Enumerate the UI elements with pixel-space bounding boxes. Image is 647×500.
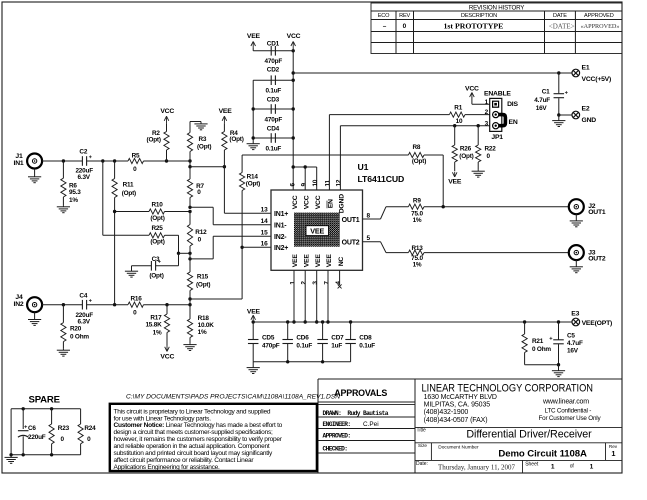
wire pin1 VEE [293, 270, 295, 322]
op-amp U1 outline [271, 190, 363, 270]
svg-text:(Opt): (Opt) [459, 153, 473, 160]
wire R21/C5 bottom [525, 364, 559, 366]
svg-text:R25: R25 [151, 225, 163, 232]
node R22 tap [477, 124, 480, 127]
node spare top C6 [22, 407, 25, 410]
wire VEE rail [253, 321, 572, 323]
node branch R11 [113, 159, 116, 162]
ground below J4 [34, 312, 36, 319]
revision history table [371, 3, 622, 54]
svg-text:LTC Confidential -: LTC Confidential - [545, 408, 592, 415]
wire node A down jog [189, 161, 191, 167]
node CD4 right [292, 136, 295, 139]
node CD3 right [292, 107, 295, 110]
wire pin3 VEE [316, 270, 318, 322]
wire R15 node to IN2 row [189, 299, 191, 305]
svg-text:R18: R18 [198, 315, 210, 322]
svg-text:Title: Title [417, 428, 426, 434]
svg-text:1: 1 [551, 464, 555, 471]
node CD7 bottom [321, 360, 324, 363]
svg-text:ENGINEER:: ENGINEER: [323, 421, 351, 428]
wire R13 to J3 [424, 252, 569, 254]
svg-text:CD1: CD1 [267, 40, 280, 47]
svg-text:OUT1: OUT1 [588, 209, 606, 216]
svg-text:Size: Size [418, 443, 427, 448]
svg-text:R15: R15 [197, 274, 209, 281]
svg-text:0.1uF: 0.1uF [265, 146, 281, 153]
capacitor C2 [81, 156, 83, 166]
svg-text:CD4: CD4 [267, 125, 280, 132]
svg-text:C.Pei: C.Pei [363, 421, 379, 428]
node A R3/R5 [188, 159, 191, 162]
svg-text:REVISION HISTORY: REVISION HISTORY [469, 4, 524, 11]
resistor R11 [114, 161, 116, 179]
svg-text:1%: 1% [413, 261, 422, 268]
svg-text:5: 5 [367, 235, 371, 242]
wire J4 to C4 [42, 304, 83, 306]
resistor R18 [189, 305, 191, 319]
svg-text:0.1uF: 0.1uF [265, 88, 281, 95]
capacitor CD4 [270, 133, 272, 143]
node R26 tap [453, 124, 456, 127]
svg-text:R22: R22 [485, 146, 497, 153]
wire C1 to E2 [559, 114, 572, 116]
svg-text:VEE: VEE [219, 108, 233, 115]
ground below R20 [62, 349, 64, 350]
svg-text:For Customer Use Only: For Customer Use Only [539, 415, 602, 422]
wire VCC to JP1 pin1 [471, 97, 473, 104]
svg-text:VEE: VEE [303, 254, 310, 268]
node R4 bottom [223, 165, 226, 168]
svg-text:(408)432-1900: (408)432-1900 [424, 409, 469, 416]
title block [318, 378, 622, 380]
svg-text:DRAWN: Rudy Bautista: DRAWN: Rudy Bautista [323, 410, 389, 417]
svg-text:APPROVED: APPROVED [584, 13, 614, 19]
svg-text:220uF: 220uF [28, 434, 46, 441]
svg-text:4.7uF: 4.7uF [567, 340, 583, 347]
ground below J2 [575, 214, 577, 221]
svg-text:470pF: 470pF [265, 58, 283, 65]
capacitor C4 [81, 300, 83, 310]
spare left wire [10, 409, 12, 455]
svg-text:VCC: VCC [303, 195, 310, 209]
svg-text:R9: R9 [413, 198, 421, 205]
svg-text:0 Ohm: 0 Ohm [70, 333, 89, 340]
svg-text:(Opt): (Opt) [229, 136, 243, 143]
wire R15 bottom to IN2+ riser [190, 298, 242, 300]
svg-text:(Opt): (Opt) [149, 272, 163, 279]
svg-text:DGND: DGND [339, 194, 346, 214]
wire CD4 row [253, 137, 293, 139]
ground spare [10, 455, 12, 458]
wire J1 to C2 [42, 160, 83, 162]
node R12 bottom [188, 252, 191, 255]
svg-text:(Opt): (Opt) [412, 158, 426, 165]
svg-text:substitution and printed circu: substitution and printed circuit board l… [114, 450, 274, 457]
resistor R15 [189, 253, 191, 272]
svg-text:C1: C1 [542, 89, 550, 96]
svg-text:1630 McCARTHY BLVD: 1630 McCARTHY BLVD [424, 394, 497, 401]
node R6 tap [62, 159, 65, 162]
svg-text:Document Number: Document Number [438, 445, 479, 451]
wire node A to R4 bottom [190, 166, 224, 168]
svg-text:R1: R1 [454, 105, 462, 112]
capacitor C6 [22, 409, 24, 429]
wire CD1 row [252, 47, 254, 50]
resistor R6 [62, 161, 64, 178]
capacitor CD1 [270, 46, 272, 56]
svg-text:(Opt): (Opt) [150, 215, 164, 222]
U1 thermal pad [294, 213, 340, 247]
svg-text:(Opt): (Opt) [196, 282, 210, 289]
svg-text:0.1uF: 0.1uF [359, 343, 375, 350]
svg-text:ENABLE: ENABLE [484, 90, 511, 97]
capacitor C3 [132, 265, 152, 267]
wire pin14 IN1- [190, 206, 213, 208]
svg-text:(Opt): (Opt) [147, 136, 161, 143]
svg-text:C5: C5 [567, 332, 575, 339]
svg-text:VEE: VEE [292, 254, 299, 268]
node R17 tap [165, 303, 168, 306]
node CD5 top [252, 320, 255, 323]
resistor R16 [128, 302, 143, 307]
terminal E3 [572, 318, 580, 326]
svg-text:C3: C3 [152, 256, 160, 263]
svg-text:R8: R8 [413, 144, 421, 151]
node OUT1 feedback [442, 205, 445, 208]
proprietary notice box [110, 404, 317, 471]
wire C2 to R5 [87, 160, 128, 162]
svg-text:VEE: VEE [310, 227, 324, 236]
power VEE below R26 [452, 172, 454, 177]
svg-text:OUT2: OUT2 [342, 240, 360, 247]
svg-text:MILPITAS, CA. 95035: MILPITAS, CA. 95035 [424, 401, 491, 408]
svg-text:Applications Engineering for a: Applications Engineering for assistance. [114, 464, 221, 471]
svg-text:CD7: CD7 [331, 335, 344, 342]
ground left of C3 [131, 266, 133, 271]
resistor R5 [128, 158, 143, 163]
svg-text:10: 10 [456, 118, 463, 125]
node C1 top [557, 71, 560, 74]
svg-text:CD8: CD8 [359, 335, 372, 342]
node pin3 rail [315, 320, 318, 323]
svg-text:OUT2: OUT2 [588, 256, 606, 263]
svg-text:CD5: CD5 [262, 335, 275, 342]
connector J4 [27, 297, 42, 312]
svg-text:OUT1: OUT1 [342, 217, 360, 224]
ground below J3 [575, 260, 577, 267]
svg-text:www.linear.com: www.linear.com [542, 398, 589, 405]
svg-text:R10: R10 [151, 201, 163, 208]
terminal E2 [572, 111, 580, 119]
wire pin16 IN2+ [242, 246, 271, 248]
ground below R22 [477, 169, 479, 171]
wire CD left vertical [252, 80, 254, 142]
wire pin15 IN2- [190, 258, 213, 260]
svg-text:4.7uF: 4.7uF [534, 97, 550, 104]
resistor R3 [189, 152, 191, 162]
svg-text:however, it remains the custom: however, it remains the customers respon… [114, 436, 283, 443]
wire pin11 EN riser [328, 115, 330, 190]
node pin15 tap [188, 257, 191, 260]
svg-text:CD3: CD3 [267, 97, 280, 104]
ground below CD4 [252, 143, 254, 144]
svg-text:CHECKED:: CHECKED: [323, 445, 348, 452]
wire CD bottom rail [253, 361, 350, 363]
svg-text:R23: R23 [58, 425, 70, 432]
node CD7 top [321, 320, 324, 323]
svg-text:R3: R3 [199, 136, 207, 143]
svg-text:E1: E1 [582, 64, 590, 71]
svg-text:VCC(+5V): VCC(+5V) [582, 76, 612, 83]
node pin16 junction [240, 246, 243, 249]
svg-text:R16: R16 [130, 295, 142, 302]
resistor R20 [62, 305, 64, 323]
svg-text:VCC: VCC [287, 33, 301, 40]
svg-text:Thursday, January 11, 2007: Thursday, January 11, 2007 [438, 463, 515, 472]
terminal E1 [572, 69, 580, 77]
resistor R14 [240, 173, 245, 191]
wire C3 node to R12 bottom [179, 252, 191, 254]
node R20 tap [62, 303, 65, 306]
svg-text:95.3: 95.3 [69, 189, 81, 196]
svg-text:IN1+: IN1+ [274, 211, 288, 218]
node pin2 rail [304, 320, 307, 323]
wire R8 to OUT1 node [424, 154, 443, 156]
svg-text:8: 8 [367, 212, 371, 219]
svg-text:JP1: JP1 [491, 134, 503, 141]
svg-text:R24: R24 [84, 425, 96, 432]
svg-text:LT6411CUD: LT6411CUD [358, 174, 405, 184]
svg-text:CD6: CD6 [296, 335, 309, 342]
wire pin10 stub [316, 167, 318, 190]
svg-text:affect circuit performance or: affect circuit performance or reliabilit… [114, 457, 255, 464]
svg-text:13: 13 [261, 206, 268, 213]
svg-text:LINEAR TECHNOLOGY CORPORATION: LINEAR TECHNOLOGY CORPORATION [422, 383, 594, 395]
svg-text:VCC: VCC [160, 108, 174, 115]
svg-text:ECO: ECO [378, 13, 390, 19]
svg-text:design a circuit that meets cu: design a circuit that meets customer-sup… [114, 429, 273, 436]
connector J2 [569, 199, 584, 214]
svg-text:14: 14 [261, 218, 268, 225]
svg-text:470pF: 470pF [262, 343, 280, 350]
node R18 top [188, 303, 191, 306]
capacitor C5 [558, 322, 560, 340]
svg-text:C:\MY DOCUMENTS\PADS PROJECTS\: C:\MY DOCUMENTS\PADS PROJECTS\CAM\1108A\… [126, 394, 340, 401]
resistor R23 [51, 409, 53, 424]
resistor R9 [408, 204, 424, 209]
svg-text:12: 12 [336, 179, 343, 186]
node R11 bottom [113, 303, 116, 306]
node spare top R23 [50, 407, 53, 410]
svg-text:C4: C4 [79, 293, 87, 300]
node pin1 rail [292, 320, 295, 323]
svg-text:DIS: DIS [507, 101, 518, 108]
node E2 junction [557, 113, 560, 116]
node A2 [188, 165, 191, 168]
resistor R8 [408, 152, 424, 157]
node CD8 top [349, 320, 352, 323]
wire CD3 row [253, 108, 293, 110]
svg-text:APPROVALS: APPROVALS [334, 388, 387, 398]
svg-text:R5: R5 [132, 152, 140, 159]
wire R9 to J2 [424, 206, 569, 208]
svg-text:VCC: VCC [160, 353, 174, 360]
svg-text:EN: EN [328, 199, 335, 208]
wire R14 to R8 [242, 154, 408, 156]
wire VCC rail vertical [292, 47, 294, 190]
ground below R6 [62, 206, 64, 207]
svg-text:Customer Notice: Linear Techno: Customer Notice: Linear Technology has m… [114, 422, 283, 429]
svg-text:IN1: IN1 [14, 160, 24, 167]
svg-text:1: 1 [611, 449, 615, 458]
svg-text:VEE: VEE [315, 254, 322, 268]
svg-text:VEE: VEE [326, 254, 333, 268]
wire OUT2 stub [363, 241, 381, 243]
svg-text:«APPROVED»: «APPROVED» [581, 23, 620, 30]
svg-text:15: 15 [261, 230, 268, 237]
node R15 bottom [188, 297, 191, 300]
svg-text:C6: C6 [28, 425, 36, 432]
node spare bottom R23 [50, 453, 53, 456]
capacitor C1 [558, 73, 560, 93]
node C5 top [557, 320, 560, 323]
node CD6 bottom [286, 360, 289, 363]
svg-text:0.1uF: 0.1uF [296, 343, 312, 350]
wire R5 to node A [144, 160, 191, 162]
node CD3 left [252, 107, 255, 110]
svg-text:Sheet: Sheet [525, 462, 539, 468]
node CD4 left [252, 136, 255, 139]
svg-text:C2: C2 [79, 148, 87, 155]
svg-text:R12: R12 [195, 229, 207, 236]
node E1 tap [292, 71, 295, 74]
svg-text:VEE: VEE [448, 179, 462, 186]
resistor R26 [454, 126, 456, 145]
capacitor CD3 [270, 104, 272, 114]
svg-text:1%: 1% [69, 197, 78, 204]
svg-text:and reliable operation in the: and reliable operation in the actual app… [114, 443, 270, 450]
svg-text:IN2-: IN2- [274, 234, 287, 241]
resistor R13 [408, 250, 424, 255]
ground below J1 [34, 169, 36, 177]
svg-text:VEE(OPT): VEE(OPT) [582, 320, 613, 327]
svg-text:This circuit is proprietary to: This circuit is proprietary to Linear Te… [114, 408, 271, 415]
svg-text:1%: 1% [413, 217, 422, 224]
node C5 bottom [557, 363, 560, 366]
svg-text:1%: 1% [153, 329, 162, 336]
svg-text:11: 11 [325, 179, 332, 186]
svg-text:Differential Driver/Receiver: Differential Driver/Receiver [466, 429, 592, 441]
svg-text:DESCRIPTION: DESCRIPTION [461, 13, 497, 19]
svg-text:(Opt): (Opt) [122, 190, 136, 197]
svg-text:VEE: VEE [247, 33, 261, 40]
resistor R25 [149, 233, 164, 238]
spare bottom rail wire [11, 454, 81, 456]
node spare bottom C6 [22, 453, 25, 456]
svg-text:1st PROTOTYPE: 1st PROTOTYPE [443, 22, 503, 31]
svg-text:R26: R26 [460, 146, 472, 153]
svg-text:VCC: VCC [465, 86, 479, 93]
node R10 right [188, 210, 191, 213]
svg-text:<DATE>: <DATE> [549, 22, 575, 30]
svg-text:VCC: VCC [315, 195, 322, 209]
wire pin9 stub [304, 167, 306, 190]
resistor R1 [449, 112, 465, 117]
node CD2 right [292, 79, 295, 82]
svg-text:DATE: DATE [553, 13, 567, 19]
node pin9 connector [304, 165, 307, 168]
svg-text:IN2+: IN2+ [274, 245, 288, 252]
svg-text:R11: R11 [123, 182, 134, 189]
svg-text:VCC: VCC [292, 195, 299, 209]
svg-text:R17: R17 [150, 314, 162, 321]
node C3/R25 [177, 252, 180, 255]
svg-text:6.3V: 6.3V [78, 174, 91, 181]
capacitor CD8 [350, 322, 352, 339]
svg-text:1uF: 1uF [331, 343, 342, 350]
resistor R10 [115, 211, 149, 213]
svg-text:NC: NC [338, 257, 345, 267]
svg-text:Demo Circuit 1108A: Demo Circuit 1108A [498, 449, 587, 460]
wire pin4 NC stub [339, 270, 341, 285]
node pin6 connector [292, 165, 295, 168]
capacitor CD2 [270, 75, 272, 85]
svg-text:(Opt): (Opt) [197, 143, 211, 150]
svg-text:Date:: Date: [416, 461, 428, 467]
capacitor CD7 [322, 322, 324, 339]
connector J3 [569, 245, 584, 260]
resistor R4 [223, 123, 225, 131]
jumper JP1 outline [490, 98, 502, 131]
power VCC below R17 [165, 347, 167, 352]
JP1 pin2 pad [493, 112, 499, 118]
resistor R24 [80, 409, 82, 424]
svg-text:(Opt): (Opt) [150, 239, 164, 246]
resistor R17 [166, 305, 168, 314]
node spare bottom left [9, 453, 12, 456]
svg-text:10: 10 [312, 179, 319, 186]
JP1 shunt jumper [498, 115, 505, 126]
wire CD2 row [253, 79, 293, 81]
node pin7 rail [326, 320, 329, 323]
svg-text:CD2: CD2 [267, 67, 280, 74]
capacitor CD5 [252, 322, 254, 339]
resistor R2 [166, 123, 168, 131]
node R21 top [523, 320, 526, 323]
resistor R21 [524, 322, 526, 334]
resistor R12 [189, 212, 191, 225]
svg-text:R20: R20 [70, 326, 82, 333]
wire branch to R25 [102, 161, 104, 235]
svg-text:IN1-: IN1- [274, 222, 287, 229]
node R7 bottom [188, 206, 191, 209]
svg-text:15.8K: 15.8K [145, 321, 162, 328]
wire IN2+ riser x242 [241, 191, 243, 300]
ground below C5 [558, 365, 560, 371]
ground below E2 [558, 115, 560, 121]
svg-text:E2: E2 [582, 106, 590, 113]
resistor R22 [477, 126, 479, 145]
JP1 pin1 pad [493, 101, 499, 107]
svg-text:GND: GND [582, 117, 597, 124]
svg-text:REV: REV [399, 13, 410, 19]
node branch x102.8 [101, 159, 104, 162]
spare top rail wire [11, 408, 81, 410]
svg-text:EN: EN [509, 119, 518, 126]
svg-text:16V: 16V [567, 347, 579, 354]
ground above-right of R3 [200, 122, 202, 124]
